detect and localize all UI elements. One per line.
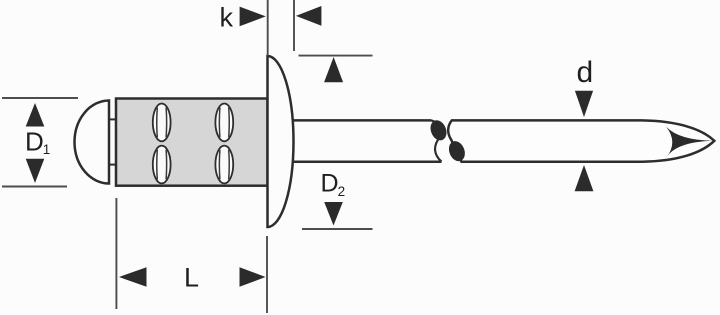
svg-text:d: d <box>577 56 594 89</box>
svg-text:L: L <box>184 263 199 293</box>
svg-text:k: k <box>220 3 234 33</box>
